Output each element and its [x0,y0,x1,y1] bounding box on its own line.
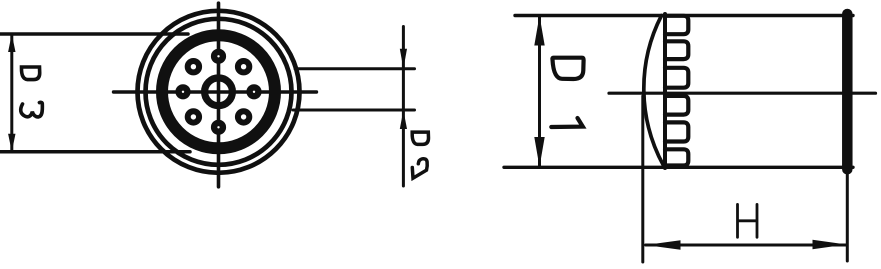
bolt hole top-left (ring) [188,61,199,72]
label H [738,204,758,237]
bolt hole bottom-right (ring) [238,111,249,122]
bolt hole top-right (ring) [238,61,249,72]
dimension D3 top extension line [0,32,188,36]
tab 5 [665,122,688,141]
tab 4 [665,96,688,115]
dimension H arrow left [646,240,681,249]
bolt hole bottom-left (ring) [188,111,199,122]
label D1 digit 1 [551,118,583,127]
dimension H left extension line [641,96,644,262]
dimension D2 bottom extension line [293,109,415,112]
label D2 letter D [412,132,428,144]
dimension D2 line [402,27,405,187]
second circle (seam) [146,19,292,165]
dimension H right extension line [846,174,849,261]
dimension D1 arrow up [534,16,544,46]
tab 2 [665,41,688,59]
dimension D2 arrow down (above top line) [400,49,407,69]
dimension D3 arrow down [8,134,15,152]
tab 6 [665,149,688,165]
dimension D1 arrow down [534,137,544,167]
label D3 digit 3 [21,102,43,117]
dimension D3 arrow up [8,34,15,52]
front view horizontal centerline [114,90,317,93]
bolt hole right [246,84,261,99]
closed end thick bar [842,14,853,169]
label D3 letter D [21,67,39,80]
open end face line [663,14,667,168]
outer circle (can rim) [138,11,300,173]
center thread ring [205,78,233,106]
gasket ring (thick annulus) [162,35,275,148]
side view centerline [609,92,876,95]
dimension D2 arrow up (below bottom line) [400,110,407,129]
dimension D3 bottom extension line [0,150,190,154]
tab 3 [665,68,688,88]
bolt hole top [175,49,261,135]
dimension D1 line [538,16,541,168]
can top edge with D1 extension [515,14,853,17]
dimension D3 line [10,34,13,152]
dimension H arrow right [813,240,847,249]
label D2 digit 2 [412,159,427,179]
label D1 letter D [552,58,583,79]
tab 1 [665,16,688,34]
can bottom edge with D1 extension [504,166,853,169]
dome arc [644,16,664,166]
dimension D2 top extension line [295,67,415,70]
front view vertical centerline [217,3,221,187]
bolt hole bottom [211,120,226,135]
dimension H line [646,244,847,247]
bolt hole left [175,84,190,99]
